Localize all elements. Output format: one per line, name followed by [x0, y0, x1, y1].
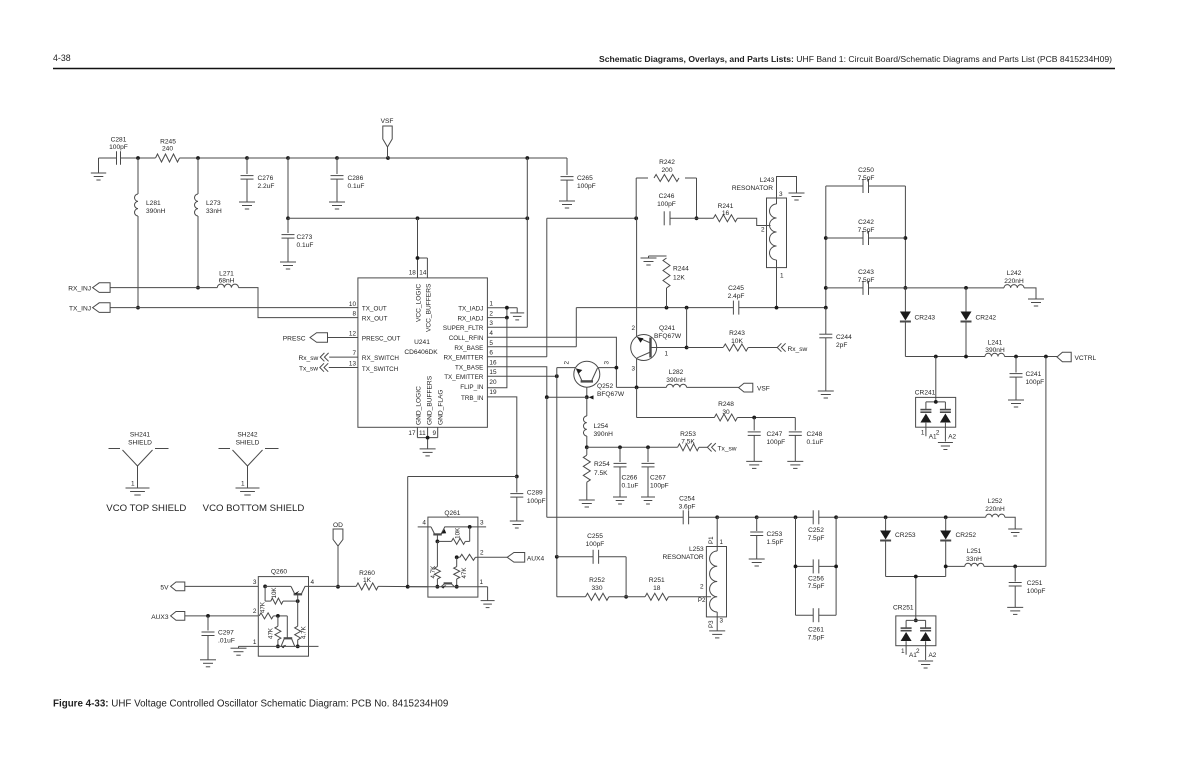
svg-text:1: 1 — [241, 481, 245, 488]
ground (R254) — [579, 500, 595, 507]
node (OD on R260 line) — [336, 585, 340, 589]
svg-text:L281: L281 — [146, 200, 161, 207]
node (C286 top) — [335, 156, 339, 160]
capacitor C245 — [728, 285, 745, 315]
svg-text:VCTRL: VCTRL — [1075, 355, 1097, 362]
svg-text:R251: R251 — [649, 577, 665, 584]
node (C251 top) — [1013, 565, 1017, 569]
wire ladder right vertical — [904, 186, 906, 288]
svg-text:SUPER_FLTR: SUPER_FLTR — [443, 325, 484, 332]
pin label 3 (L243) — [779, 191, 783, 198]
ground (SH241) — [126, 488, 150, 495]
wire diode anode tie — [886, 577, 946, 616]
capacitor C244 — [819, 308, 852, 391]
ground (CR251) — [918, 661, 933, 668]
node (C242 row right) — [904, 236, 908, 240]
wire Q252 collector down — [587, 387, 594, 399]
svg-text:C273: C273 — [297, 234, 313, 241]
off-page Rx_sw (pin 7) — [299, 353, 329, 362]
wire pin 3 SUPER_FLTR — [487, 326, 527, 328]
svg-text:CR251: CR251 — [893, 605, 914, 612]
svg-text:18: 18 — [653, 585, 661, 592]
ground (C241) — [1008, 400, 1024, 407]
svg-text:1: 1 — [665, 351, 669, 358]
svg-text:RX_SWITCH: RX_SWITCH — [362, 355, 400, 362]
wire pin 5 RX_BASE — [487, 308, 576, 347]
ground (L252) — [1008, 529, 1022, 536]
svg-text:Tx_sw: Tx_sw — [718, 446, 737, 453]
svg-text:P1: P1 — [708, 536, 715, 544]
svg-text:2.2uF: 2.2uF — [258, 183, 275, 190]
capacitor C250 — [826, 167, 906, 193]
Q260 pin numbers — [253, 579, 315, 646]
resistor R252 — [557, 557, 645, 601]
svg-text:2: 2 — [916, 648, 920, 655]
node (Q261 pin 3) — [468, 525, 472, 529]
wire down to VCC rail — [287, 158, 289, 218]
ground (L242) — [1028, 299, 1044, 306]
wire RX_INJ to L271 — [110, 287, 217, 289]
node (L281 top) — [136, 156, 140, 160]
node (R260 / TRB drop) — [406, 585, 410, 589]
capacitor C256 — [794, 559, 838, 589]
wire Q252 pin 2 — [557, 368, 576, 377]
ground (C253) — [749, 559, 765, 566]
svg-text:2: 2 — [480, 550, 484, 557]
wire Tx_sw to pin 13 — [329, 367, 358, 369]
svg-text:L251: L251 — [967, 548, 982, 555]
svg-text:C252: C252 — [808, 527, 824, 534]
node (C255 branch) — [555, 555, 559, 559]
svg-text:100pF: 100pF — [527, 498, 546, 505]
wire C246 to R241 — [670, 217, 713, 219]
svg-text:RX_EMITTER: RX_EMITTER — [444, 355, 484, 362]
capacitor C246 — [657, 193, 676, 225]
svg-text:1: 1 — [480, 579, 484, 586]
resistor R243 — [687, 330, 778, 351]
U241 left pin numbers — [349, 301, 357, 368]
pin labels Q241 — [631, 325, 668, 373]
node (L253 P1 drop) — [715, 515, 719, 519]
wire Q252 bottom to TX net — [547, 396, 587, 398]
svg-text:4: 4 — [311, 579, 315, 586]
svg-text:L254: L254 — [594, 423, 609, 430]
header rule — [53, 68, 1115, 70]
node (L273 bottom on RX_INJ line) — [196, 286, 200, 290]
wire L253 pin 3 to ground — [716, 617, 718, 631]
wire Q241 base drop — [686, 308, 688, 348]
label VCO BOTTOM SHIELD — [203, 503, 305, 514]
svg-text:19: 19 — [489, 389, 497, 396]
svg-text:33nH: 33nH — [966, 556, 982, 563]
svg-text:R253: R253 — [680, 431, 696, 438]
wire Q252 pin 3 — [598, 367, 616, 369]
diode CR243 — [900, 288, 935, 357]
svg-text:C243: C243 — [858, 269, 874, 276]
wire RX_EMITTER rail — [547, 218, 636, 356]
svg-text:L253: L253 — [689, 546, 704, 553]
svg-text:2: 2 — [489, 310, 493, 317]
svg-text:Tx_sw: Tx_sw — [299, 366, 318, 373]
resistor R260 — [309, 570, 428, 590]
svg-text:R242: R242 — [659, 159, 675, 166]
Q261 pin 4 stub — [418, 526, 431, 528]
Q260 47K shunt resistor — [267, 616, 281, 647]
svg-text:100pF: 100pF — [650, 483, 669, 490]
ground (R244) — [641, 258, 657, 265]
capacitor C286 — [331, 158, 365, 202]
resonator L243 — [732, 177, 787, 268]
svg-text:R243: R243 — [729, 330, 745, 337]
node (pin4/Q252 pin3) — [615, 366, 619, 370]
node (L273 top) — [196, 156, 200, 160]
svg-text:17: 17 — [408, 430, 416, 437]
resistor R254 — [583, 447, 610, 500]
svg-text:10K: 10K — [455, 527, 462, 539]
transistor Q241 — [631, 325, 687, 361]
capacitor C276 — [241, 158, 275, 202]
ground (L253 pin 3) — [709, 631, 725, 638]
node (Q261 4.7K bottom) — [436, 585, 440, 589]
Q261 bottom line — [408, 587, 488, 601]
svg-text:R254: R254 — [594, 461, 610, 468]
node (C266 top) — [618, 445, 622, 449]
Q261 lower transistor — [441, 583, 455, 588]
svg-text:GND_LOGIC: GND_LOGIC — [415, 386, 422, 425]
node (Q260 base junction) — [296, 599, 300, 603]
flag AUX4 — [478, 553, 545, 563]
svg-text:FLIP_IN: FLIP_IN — [460, 384, 484, 391]
svg-text:10: 10 — [349, 301, 357, 308]
transistor Q252 — [574, 361, 625, 398]
inductor L241 — [985, 340, 1005, 357]
svg-text:TX_SWITCH: TX_SWITCH — [362, 366, 399, 373]
wire C243 row to L242 — [905, 287, 1004, 289]
wire AUX3 to Q260 pin 2 — [185, 615, 258, 617]
wire R241 to resonator pin 2 — [737, 218, 770, 225]
svg-text:1: 1 — [901, 648, 905, 655]
svg-text:PRESC: PRESC — [283, 336, 306, 343]
wire varactor bias line — [946, 565, 965, 567]
flag 5V — [160, 582, 184, 592]
capacitor C255 — [557, 533, 626, 597]
wire VSF node to C265 — [388, 157, 567, 159]
ground (TX_IADJ/RX_IADJ) — [510, 313, 524, 320]
svg-text:C281: C281 — [111, 137, 127, 144]
label VCO TOP SHIELD — [106, 503, 186, 514]
svg-text:1: 1 — [253, 639, 257, 646]
svg-text:A2: A2 — [948, 433, 956, 440]
svg-text:7.5pF: 7.5pF — [808, 535, 825, 542]
svg-text:330: 330 — [591, 585, 602, 592]
flag VSF (collector feed) — [739, 383, 770, 392]
capacitor C266 — [614, 447, 639, 497]
node (rail / ladder corner) — [824, 306, 828, 310]
svg-text:C267: C267 — [650, 475, 666, 482]
node (ladder right top) — [834, 515, 838, 519]
node (Q252 bottom) — [585, 395, 589, 399]
pin labels CR251 — [901, 648, 937, 659]
svg-text:390nH: 390nH — [594, 431, 614, 438]
inductor L282 — [666, 369, 686, 387]
ground (C273) — [280, 262, 296, 269]
inductor L281 — [135, 158, 166, 308]
svg-text:3: 3 — [720, 618, 724, 625]
svg-text:7.5K: 7.5K — [594, 470, 608, 477]
svg-text:RESONATOR: RESONATOR — [663, 554, 704, 561]
svg-text:10K: 10K — [271, 587, 278, 599]
node (C243 row right) — [904, 286, 908, 290]
node (R242/C246 right) — [695, 216, 699, 220]
flag AUX3 — [151, 612, 185, 622]
svg-text:C245: C245 — [728, 285, 744, 292]
svg-text:CR242: CR242 — [976, 315, 997, 322]
svg-text:3: 3 — [604, 361, 611, 365]
svg-text:100pF: 100pF — [1027, 588, 1046, 595]
svg-text:68nH: 68nH — [219, 278, 235, 285]
svg-text:30: 30 — [722, 409, 730, 416]
flag VSF (supply) — [381, 118, 394, 158]
wire rail to C253 — [717, 516, 757, 518]
svg-text:12K: 12K — [673, 275, 685, 282]
capacitor C254 — [679, 496, 696, 525]
svg-text:Q241: Q241 — [659, 325, 675, 332]
wire pin 15 TX_EMITTER — [487, 375, 556, 377]
svg-text:L271: L271 — [219, 271, 234, 278]
svg-text:20: 20 — [489, 379, 497, 386]
U241 VCC_BUFFERS label — [425, 283, 432, 332]
Q261 4.7K resistor — [430, 541, 440, 586]
node (C273 branch top) — [286, 156, 290, 160]
capacitor C297 — [202, 616, 235, 660]
svg-text:C251: C251 — [1027, 580, 1043, 587]
node (pin15/Q252 pin2) — [555, 374, 559, 378]
svg-text:1: 1 — [720, 539, 724, 546]
svg-text:47K: 47K — [267, 627, 274, 639]
ground (C266) — [613, 497, 627, 504]
node (L281 bottom on TX_INJ line) — [136, 306, 140, 310]
wire TX_INJ to pin 10 — [110, 307, 358, 309]
U241 GND_LOGIC label — [415, 386, 422, 425]
svg-text:RX_INJ: RX_INJ — [68, 286, 91, 293]
wire ladder right vertical (lower) — [835, 517, 837, 615]
svg-text:R245: R245 — [160, 139, 176, 146]
node (Q241 collector / R248) — [635, 386, 639, 390]
ground (C265) — [559, 201, 575, 208]
capacitor C247 — [748, 418, 786, 462]
svg-text:0.1uF: 0.1uF — [297, 242, 314, 249]
varactor CR251 — [893, 605, 936, 661]
Q260 upper transistor — [265, 586, 308, 594]
svg-text:390nH: 390nH — [666, 377, 686, 384]
svg-text:100pF: 100pF — [577, 183, 596, 190]
Q260 10K resistor — [265, 586, 298, 604]
digital transistor Q261 body — [428, 510, 478, 597]
node (Q260 47K junction) — [276, 614, 280, 618]
svg-text:5V: 5V — [160, 585, 169, 592]
resistor R245 — [156, 139, 180, 163]
svg-text:Q260: Q260 — [271, 569, 287, 576]
pin labels CR241 — [921, 430, 957, 441]
svg-text:SHIELD: SHIELD — [128, 440, 152, 447]
node (CR252 top) — [944, 515, 948, 519]
svg-text:Figure 4-33: UHF Voltage Contr: Figure 4-33: UHF Voltage Controlled Osci… — [53, 699, 448, 710]
ground (C276) — [239, 202, 255, 209]
resistor R244 — [649, 256, 690, 308]
ground (Q260 pin 1) — [231, 648, 247, 655]
ground (L243 pin 3) — [789, 193, 805, 200]
wire pin 6 RX_EMITTER — [487, 356, 546, 358]
svg-text:3: 3 — [631, 366, 635, 373]
shield SH241 — [109, 432, 169, 489]
U241 left pin names — [362, 306, 401, 374]
ground (C248) — [787, 461, 803, 468]
svg-text:C248: C248 — [807, 431, 823, 438]
svg-text:220nH: 220nH — [985, 506, 1005, 513]
node (pin 1) — [505, 306, 509, 310]
svg-text:100pF: 100pF — [657, 201, 676, 208]
Q261 10K resistor — [436, 527, 470, 545]
svg-text:SHIELD: SHIELD — [236, 440, 260, 447]
svg-text:9: 9 — [432, 430, 436, 437]
wire Rx_sw to pin 7 — [329, 356, 358, 358]
svg-text:200: 200 — [661, 167, 672, 174]
Q260 lower transistor — [281, 616, 295, 648]
svg-text:13: 13 — [349, 361, 357, 368]
svg-text:R252: R252 — [589, 577, 605, 584]
wire L243 pin 1 — [776, 268, 778, 308]
wire to C286 — [288, 157, 337, 159]
node (ladder left top) — [794, 515, 798, 519]
svg-text:100pF: 100pF — [1026, 379, 1045, 386]
svg-text:AUX3: AUX3 — [151, 614, 169, 621]
ground (C244) — [818, 391, 834, 398]
svg-text:2: 2 — [936, 430, 940, 437]
wire TRB rail — [408, 477, 517, 587]
svg-text:Rx_sw: Rx_sw — [788, 346, 808, 353]
svg-text:7.5pF: 7.5pF — [808, 583, 825, 590]
svg-text:2: 2 — [761, 227, 765, 234]
svg-text:C253: C253 — [767, 531, 783, 538]
svg-text:R248: R248 — [718, 401, 734, 408]
svg-text:SH241: SH241 — [130, 432, 150, 439]
svg-text:15: 15 — [489, 369, 497, 376]
svg-text:6: 6 — [489, 350, 493, 357]
svg-text:RX_IADJ: RX_IADJ — [457, 315, 483, 322]
svg-text:AUX4: AUX4 — [527, 556, 545, 563]
svg-text:VCC_BUFFERS: VCC_BUFFERS — [425, 283, 432, 332]
svg-text:16: 16 — [722, 210, 730, 217]
svg-text:Q261: Q261 — [444, 510, 460, 517]
svg-text:Q252: Q252 — [597, 383, 613, 390]
ground (CR241) — [938, 443, 953, 450]
svg-text:TX_INJ: TX_INJ — [69, 305, 91, 312]
node (CR252 / bias) — [944, 565, 948, 569]
inductor L252 — [985, 498, 1015, 529]
pin label 2 (L243) — [761, 227, 765, 234]
varactor CR241 — [915, 357, 956, 442]
svg-text:PRESC_OUT: PRESC_OUT — [362, 336, 401, 343]
svg-text:7.5pF: 7.5pF — [858, 227, 875, 234]
IC U241 body — [358, 278, 488, 427]
svg-text:A2: A2 — [929, 652, 937, 659]
svg-text:C246: C246 — [659, 193, 675, 200]
diode CR252 — [940, 517, 976, 576]
svg-text:16: 16 — [489, 359, 497, 366]
node (SUPER_FLTR drop) — [525, 156, 529, 160]
node (L243 pin1 on rail) — [775, 306, 779, 310]
node (CR241 drop) — [934, 355, 938, 359]
node (CR253 top) — [884, 515, 888, 519]
svg-text:3: 3 — [480, 520, 484, 527]
Q260 47K input resistor — [259, 601, 287, 619]
svg-text:240: 240 — [162, 146, 173, 153]
svg-text:C241: C241 — [1026, 371, 1042, 378]
ground (C281 left) — [91, 158, 117, 180]
svg-text:33nH: 33nH — [206, 208, 222, 215]
svg-text:220nH: 220nH — [1004, 278, 1024, 285]
svg-text:VCC_LOGIC: VCC_LOGIC — [415, 284, 422, 322]
flag PRESC — [283, 333, 328, 343]
svg-text:C265: C265 — [577, 175, 593, 182]
wire rail to ladder — [757, 516, 836, 518]
node (TRB_IN / C289) — [515, 475, 519, 479]
ground (C251) — [1007, 607, 1023, 614]
svg-text:47K: 47K — [461, 567, 468, 579]
shield SH242 — [219, 432, 279, 489]
node (CR242 bottom) — [964, 355, 968, 359]
wire L241 to VCTRL flag — [1005, 356, 1058, 358]
svg-text:TX_IADJ: TX_IADJ — [458, 306, 483, 313]
wire 5V to Q260 pin 3 — [185, 585, 258, 587]
node (L254 bottom) — [585, 445, 589, 449]
svg-text:47K: 47K — [260, 601, 267, 613]
svg-text:P2: P2 — [698, 597, 706, 604]
svg-text:1: 1 — [921, 430, 925, 437]
wire L243 pin 3 to ground — [777, 177, 797, 199]
svg-text:0.1uF: 0.1uF — [807, 439, 824, 446]
svg-text:2pF: 2pF — [836, 342, 847, 349]
node (CR251 drop) — [914, 575, 918, 579]
node (Q261 47K bottom) — [455, 585, 459, 589]
svg-text:1K: 1K — [363, 577, 372, 584]
inductor L251 — [965, 548, 1046, 566]
svg-text:1: 1 — [780, 273, 784, 280]
Q261 pin 3 stub — [470, 526, 486, 528]
capacitor C267 — [642, 447, 669, 497]
wire Q241 emitter up — [636, 218, 638, 337]
svg-text:8: 8 — [352, 311, 356, 318]
wire pin 19 TRB_IN — [487, 397, 516, 477]
svg-text:18: 18 — [409, 270, 417, 277]
svg-text:.01uF: .01uF — [218, 638, 235, 645]
svg-text:C242: C242 — [858, 219, 874, 226]
svg-text:R241: R241 — [718, 203, 734, 210]
node (U241 VCC drop) — [416, 216, 420, 220]
svg-text:C247: C247 — [767, 431, 783, 438]
Q260 4.7K resistor — [295, 594, 308, 646]
svg-text:5: 5 — [489, 340, 493, 347]
ground (C289) — [510, 521, 524, 528]
wire PRESC to pin 12 — [328, 337, 358, 339]
node (C276 top) — [245, 156, 249, 160]
node (R244 bottom) — [665, 306, 669, 310]
flag TX_INJ — [69, 303, 110, 313]
node (C247 top) — [752, 416, 756, 420]
capacitor C281 — [109, 137, 128, 165]
off-page Tx_sw (pin 13) — [299, 363, 328, 372]
svg-text:C255: C255 — [587, 533, 603, 540]
